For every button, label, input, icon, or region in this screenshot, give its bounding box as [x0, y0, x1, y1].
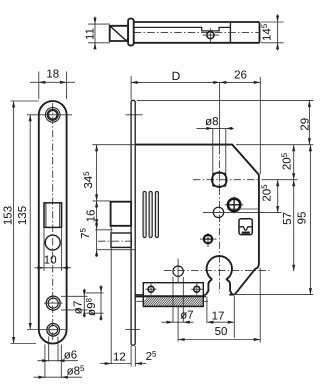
- svg-text:29: 29: [299, 118, 311, 131]
- svg-text:95: 95: [296, 212, 308, 225]
- faceplate edge side view: [131, 100, 135, 345]
- case ventilation slot 2: [149, 191, 152, 237]
- dimension dia 6 (bottom hole): [38, 337, 79, 363]
- svg-text:D: D: [172, 69, 181, 83]
- dimension 95: [296, 145, 312, 295]
- dimension 26: [220, 70, 260, 175]
- dimension dia 9.8 (countersink): [85, 285, 104, 321]
- top view: latch bolt head with bevel: [110, 26, 129, 41]
- dimension 50: [178, 268, 260, 343]
- svg-text:18: 18: [46, 69, 59, 81]
- faceplate lower screw hole bottom: [47, 324, 60, 337]
- svg-text:50: 50: [215, 326, 228, 338]
- cylinder screw hole: [225, 197, 244, 214]
- svg-text:57: 57: [282, 212, 294, 225]
- extension line case top right: [236, 144, 313, 146]
- dimension 12 (latch protrusion): [100, 227, 135, 367]
- svg-text:11: 11: [84, 28, 96, 40]
- dimension 20.5 upper: [280, 145, 295, 180]
- svg-text:12: 12: [113, 351, 126, 363]
- guide hole below follower: [213, 207, 223, 217]
- top view: screw hole: [203, 28, 219, 42]
- dimension 16 (latch height): [86, 201, 99, 226]
- dimension dia 8.5 (bottom countersink): [34, 345, 85, 379]
- svg-text:17: 17: [212, 311, 225, 323]
- cylinder hole center lines: [164, 259, 270, 342]
- faceplate center line: [52, 103, 54, 341]
- dimension 29: [299, 100, 311, 144]
- faceplate lower screw hole upper: [44, 296, 63, 310]
- faceplate top screw hole: [45, 108, 60, 123]
- extension line case bottom right: [236, 294, 313, 296]
- svg-text:26: 26: [234, 70, 247, 82]
- bar screw left: [145, 284, 156, 295]
- stamp logo box: [239, 219, 252, 235]
- dimension 17 (cylinder opening): [207, 296, 234, 338]
- top view: lock case body: [134, 22, 260, 43]
- dimension 11 (latch height): [84, 17, 110, 50]
- bar screw right: [191, 284, 202, 295]
- svg-text:135: 135: [17, 206, 29, 225]
- extension line follower right: [262, 179, 298, 181]
- dimension 20.5 lower: [260, 180, 279, 213]
- dimension 34.5 chain: [82, 145, 135, 201]
- extension line guide hole right: [203, 212, 282, 214]
- latch bolt front view: [111, 202, 132, 226]
- dimension 10 (latch opening width): [35, 229, 72, 272]
- dimension 2.5 (plate thickness): [135, 350, 157, 365]
- oval cylinder profile hole: [206, 256, 232, 294]
- svg-text:ø7: ø7: [180, 309, 193, 321]
- dimension 153 (faceplate length): [3, 101, 40, 344]
- faceplate guide hole below latch: [45, 235, 60, 250]
- follower center lines: [193, 82, 260, 292]
- svg-text:153: 153: [3, 206, 15, 225]
- extension line faceplate top right: [137, 99, 313, 101]
- dimension dia 7 (hole left of cylinder): [162, 277, 194, 324]
- case ventilation slot 1: [143, 191, 146, 237]
- dimension dia 8 (follower square): [197, 116, 234, 172]
- dimension 18 (faceplate width): [30, 69, 75, 100]
- svg-text:ø6: ø6: [64, 350, 77, 362]
- top view: center line: [134, 31, 260, 33]
- svg-text:ø7: ø7: [73, 301, 85, 314]
- screw position tick bottom: [125, 328, 140, 330]
- auxiliary bolt front view: [111, 233, 131, 247]
- svg-text:16: 16: [86, 210, 98, 223]
- dimension 57: [282, 180, 295, 272]
- follower square spindle hole: [212, 172, 227, 187]
- bolt guide bar: [143, 283, 203, 307]
- top view: stepped cover edge: [134, 27, 231, 31]
- svg-text:10: 10: [44, 255, 57, 267]
- top view: case segment divider: [229, 22, 231, 43]
- lock case outline: [135, 145, 259, 295]
- bar center line dashes: [136, 300, 208, 302]
- faceplate latch opening: [44, 203, 62, 228]
- faceplate front outline: [39, 101, 67, 344]
- top view: faceplate cross-section: [128, 19, 134, 46]
- aux bolt center line: [98, 240, 136, 242]
- case ventilation slot 3: [155, 191, 158, 237]
- dimension 135 (screw hole distance): [17, 115, 72, 330]
- dimension dia 7 (screw hole): [61, 289, 88, 318]
- svg-text:ø8: ø8: [205, 116, 218, 128]
- screw position tick top: [126, 114, 143, 116]
- inner edge line right of screw: [227, 208, 259, 210]
- dimension D (backset): [131, 69, 220, 100]
- bolt bar hatched band: [135, 296, 216, 306]
- fixing screw lower left: [200, 233, 217, 247]
- dimension 14.5 (case thickness): [260, 14, 284, 50]
- dimension 7.5 (aux bolt): [79, 223, 136, 258]
- dia 7 hole left of cylinder: [173, 266, 183, 276]
